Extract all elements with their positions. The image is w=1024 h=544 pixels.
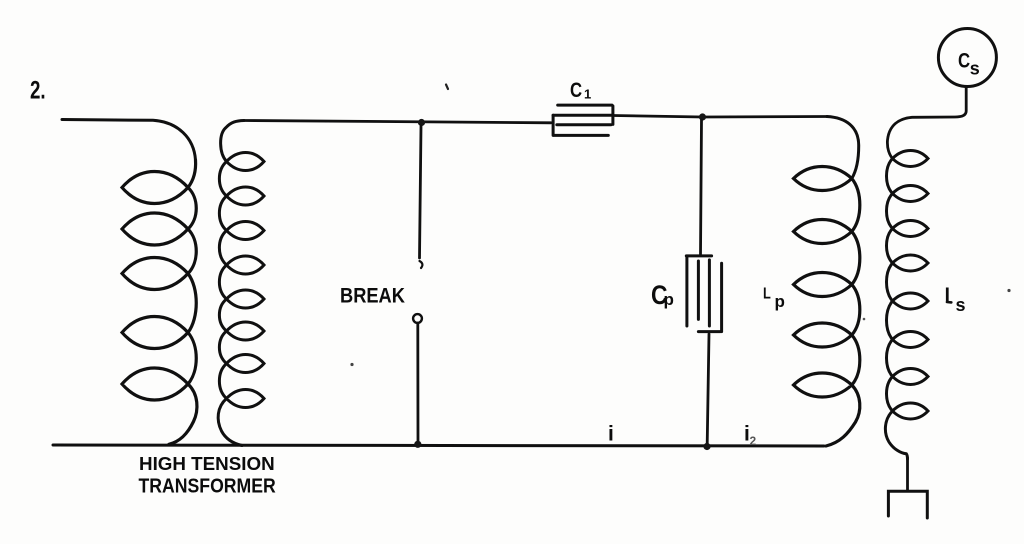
wire top rail (C1 to Lp) bbox=[613, 116, 827, 118]
ground symbol bbox=[888, 491, 927, 518]
wire HT primary top entry bbox=[188, 160, 196, 188]
wire top-left lead bbox=[62, 120, 196, 161]
speck marks bbox=[446, 85, 448, 90]
svg-text:C: C bbox=[570, 79, 582, 102]
wire Cp bottom lead bbox=[707, 334, 709, 444]
wire ground lead bbox=[906, 458, 909, 491]
inductor Ls loops bbox=[887, 151, 929, 419]
svg-text:1: 1 bbox=[584, 87, 591, 102]
wire Lp bottom drop bbox=[826, 385, 860, 446]
svg-text:s: s bbox=[970, 59, 980, 79]
wire Cs lead to Ls bbox=[887, 87, 966, 159]
inductor HT primary loops bbox=[122, 172, 196, 400]
svg-text:2.: 2. bbox=[30, 76, 46, 104]
capacitor C1 (rolled symbol) bbox=[553, 105, 613, 135]
svg-text:p: p bbox=[775, 292, 785, 311]
node junction dot break top bbox=[418, 119, 425, 126]
inductor HT secondary loops bbox=[219, 153, 264, 408]
break lower contact circle bbox=[413, 314, 422, 323]
sphere capacitance Cs bbox=[938, 29, 996, 87]
svg-text:HIGH TENSION: HIGH TENSION bbox=[139, 453, 275, 474]
svg-text:l: l bbox=[945, 286, 951, 308]
svg-text:TRANSFORMER: TRANSFORMER bbox=[139, 475, 277, 497]
svg-text:L: L bbox=[763, 285, 771, 303]
wire break upper line bbox=[420, 126, 422, 258]
wire top rail (secondary to C1) bbox=[244, 121, 551, 123]
wire Cp top lead bbox=[701, 120, 702, 255]
inductor Lp loops bbox=[794, 167, 860, 398]
svg-text:s: s bbox=[956, 295, 966, 315]
node junction dot break bottom bbox=[414, 441, 421, 448]
wire HT primary bottom drop bbox=[169, 384, 197, 444]
svg-text:i: i bbox=[608, 423, 614, 446]
svg-text:2: 2 bbox=[750, 434, 757, 448]
node junction dot Cp bottom bbox=[703, 443, 710, 450]
svg-text:BREAK: BREAK bbox=[340, 284, 405, 308]
wire bottom rail bbox=[53, 445, 824, 446]
capacitor Cp (rolled symbol, vertical) bbox=[686, 256, 721, 332]
svg-text:C: C bbox=[958, 50, 970, 73]
wire Lp top entry bbox=[827, 117, 859, 179]
wire HT secondary bottom drop bbox=[218, 399, 242, 446]
wire break lower line bbox=[416, 323, 419, 444]
svg-text:p: p bbox=[664, 290, 674, 309]
wire HT secondary top exit bbox=[221, 121, 244, 162]
wire Ls bottom drop bbox=[885, 411, 907, 459]
node junction dot Cp top bbox=[699, 113, 706, 120]
break upper end hook bbox=[420, 261, 423, 268]
